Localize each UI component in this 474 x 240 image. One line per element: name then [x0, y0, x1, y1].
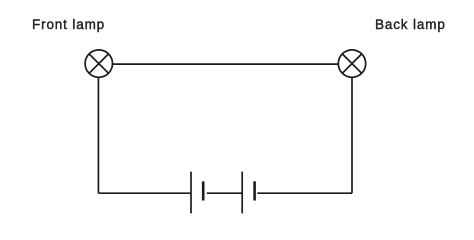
- svg-text:Front lamp: Front lamp: [32, 17, 105, 32]
- svg-text:Back lamp: Back lamp: [375, 17, 446, 32]
